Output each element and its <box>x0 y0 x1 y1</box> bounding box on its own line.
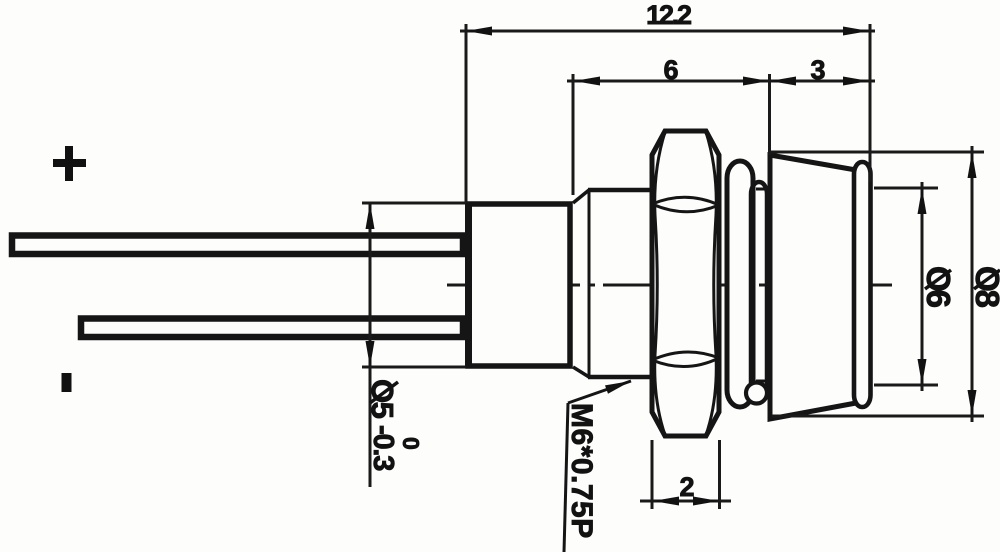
svg-text:M6*0.75P: M6*0.75P <box>565 403 598 539</box>
rear housing cylinder <box>468 204 570 366</box>
svg-text:12.2: 12.2 <box>646 0 691 30</box>
dimension 12.2 <box>460 24 875 203</box>
dimension O5 0/-0.3 <box>362 203 466 487</box>
thread chamfer bottom <box>573 367 589 377</box>
plus polarity mark <box>53 146 86 181</box>
dimension O8 <box>770 146 984 422</box>
thread chamfer top <box>573 190 589 203</box>
thread start line <box>588 191 591 376</box>
housing end face line <box>568 204 572 366</box>
svg-text:6: 6 <box>663 55 678 85</box>
front barrel stubs <box>756 189 772 381</box>
center line <box>447 284 893 287</box>
minus polarity mark <box>62 373 72 392</box>
threaded bushing M6 <box>588 190 654 377</box>
dimension O6 <box>874 182 938 391</box>
housing left end face thick edge <box>465 202 472 368</box>
lock washer <box>727 161 767 407</box>
lens cap <box>770 155 856 419</box>
lead wire + (anode) <box>12 236 463 255</box>
thread callout M6*0.75P leader <box>564 381 631 552</box>
svg-text:-0.3: -0.3 <box>367 425 399 471</box>
dimension 2 <box>640 440 731 509</box>
svg-text:0: 0 <box>398 437 424 450</box>
lead wire - (cathode) <box>81 319 463 338</box>
svg-text:2: 2 <box>679 472 694 502</box>
svg-text:3: 3 <box>810 55 825 85</box>
hex nut <box>652 131 719 436</box>
dimension 3 <box>775 80 875 83</box>
dimension 6 <box>567 74 775 195</box>
lens cap front rim pill <box>854 162 871 407</box>
